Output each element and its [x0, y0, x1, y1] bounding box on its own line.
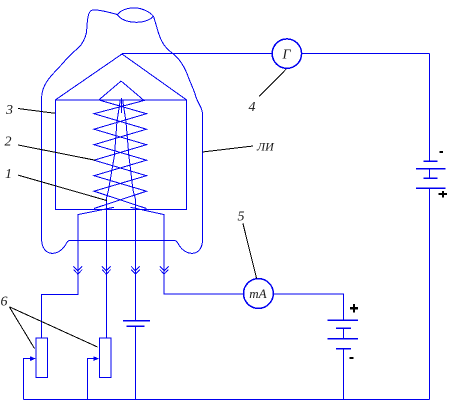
cathode filament left line (electrode 1)	[106, 100, 120, 200]
arrow chevrons lead 3	[131, 266, 140, 274]
lead wire 3 (filament right, to filament battery)	[134, 199, 136, 320]
HV battery plus label	[439, 191, 447, 197]
pointer line label 6 to R1	[9, 307, 34, 349]
pointer line label 1	[18, 175, 107, 201]
pointer line label 3	[18, 109, 55, 114]
anode battery connector	[342, 328, 344, 338]
HV battery cell2 long plate	[416, 187, 446, 189]
svg-text:5: 5	[238, 210, 245, 225]
anode battery cell1 long plate	[328, 319, 359, 321]
HV battery cell1 long plate	[416, 168, 446, 170]
milliammeter circle	[244, 279, 274, 309]
arrow chevrons lead 4	[160, 266, 169, 274]
wire: milliammeter to anode battery	[273, 294, 343, 320]
anode cylinder (electrode 3)	[56, 100, 187, 210]
pointer line label 5	[243, 223, 257, 278]
wire: galvanometer to right rail	[302, 53, 430, 55]
svg-text:2: 2	[5, 135, 12, 150]
lead wire 4 (right, to milliammeter)	[164, 215, 243, 294]
cathode center support	[120, 98, 122, 113]
filament battery long plate	[123, 320, 150, 322]
arrow chevrons lead 2	[102, 266, 111, 274]
pointer line label 2	[18, 145, 95, 160]
anode battery cell2 long plate	[328, 338, 359, 340]
arrow chevrons lead 1	[74, 266, 83, 274]
rheostat R2 body	[99, 338, 111, 377]
anode battery cell2 short plate	[336, 348, 351, 350]
bottom bus wire	[23, 398, 429, 400]
HV battery cell2 short plate	[424, 177, 438, 179]
stem dome right shoulder	[131, 207, 165, 214]
pointer line label LI	[202, 146, 253, 152]
wire: filament battery to bottom bus	[134, 326, 136, 399]
right rail bottom segment	[429, 188, 431, 399]
focusing cone (inner triangle, electrode 2 top)	[99, 81, 143, 100]
svg-text:6: 6	[1, 295, 8, 310]
svg-text:1: 1	[5, 167, 12, 182]
svg-text:4: 4	[249, 100, 256, 115]
stem dome left shoulder	[78, 207, 114, 214]
galvanometer circle	[272, 39, 301, 68]
grid helix zigzag line A (electrode 2)	[94, 100, 147, 208]
svg-text:Г: Г	[282, 48, 292, 63]
envelope bottom left ear and stem base line	[42, 239, 203, 254]
anode battery cell1 short plate	[336, 327, 351, 329]
anode roof left	[56, 54, 123, 100]
lead wire 1 (left, to rheostat R1)	[42, 215, 78, 338]
wire: anode to galvanometer	[122, 53, 272, 55]
anode battery minus label	[350, 357, 354, 359]
anode roof right	[122, 54, 186, 100]
pointer line label 6 to R2	[9, 307, 97, 347]
tube envelope	[42, 10, 118, 239]
right rail top segment	[429, 54, 431, 162]
lead wire 2 (filament left, to rheostat R2)	[105, 199, 107, 338]
filament battery short plate	[127, 325, 145, 327]
HV battery cell1 short plate	[424, 160, 438, 162]
svg-text:ЛИ: ЛИ	[256, 139, 275, 153]
rheostat R1 wiper arrow	[23, 359, 34, 400]
envelope tip fold (pinched seal)	[117, 8, 153, 22]
HV battery connector	[429, 169, 431, 179]
anode battery plus label	[350, 304, 358, 313]
wire: anode battery to bottom bus	[342, 349, 344, 400]
envelope right neck and shoulder	[154, 16, 203, 238]
pointer line label 4	[259, 69, 286, 96]
grid helix zigzag line B (electrode 2)	[94, 100, 147, 208]
rheostat R2 wiper arrow	[88, 359, 98, 400]
svg-text:3: 3	[5, 103, 13, 118]
svg-text:mA: mA	[249, 286, 266, 301]
cathode filament right line (electrode 1)	[123, 100, 136, 200]
HV battery minus label	[439, 151, 443, 153]
rheostat R1 body	[36, 338, 48, 377]
